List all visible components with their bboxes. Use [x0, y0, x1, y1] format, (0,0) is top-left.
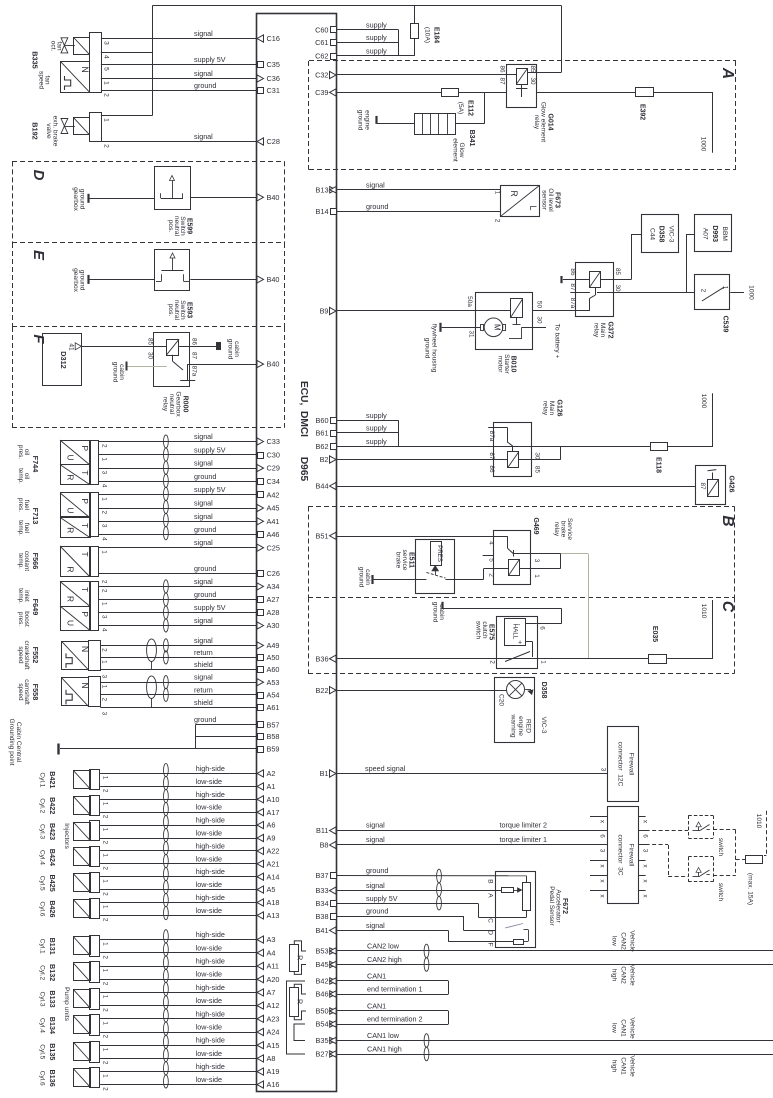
- dashed box E: [12, 243, 285, 328]
- wire B51 to G469: [337, 536, 494, 538]
- svg-text:speed: speed: [17, 646, 24, 664]
- svg-text:B423: B423: [48, 823, 57, 840]
- dashed box C: [308, 597, 735, 673]
- wire E112 to G014: [459, 92, 507, 94]
- svg-text:signal: signal: [194, 499, 213, 508]
- svg-text:(10A): (10A): [424, 27, 431, 43]
- label F713: [17, 498, 30, 536]
- svg-text:low: low: [611, 936, 618, 946]
- G372 pin labels: [569, 268, 621, 309]
- svg-text:supply: supply: [366, 46, 387, 55]
- F649 pin numbers: [101, 589, 108, 593]
- svg-text:ground: ground: [194, 525, 216, 534]
- ECU pin B9: [320, 307, 336, 316]
- svg-text:R000: R000: [182, 396, 189, 413]
- ECU pin B42: [316, 977, 337, 986]
- svg-text:2: 2: [102, 841, 109, 845]
- svg-text:signal: signal: [194, 538, 213, 547]
- svg-text:B45: B45: [316, 960, 329, 969]
- ECU pin C35: [258, 60, 280, 69]
- injector B421: [73, 770, 108, 793]
- wire B58: [195, 736, 256, 738]
- svg-text:B425: B425: [48, 875, 57, 892]
- svg-text:warning: warning: [510, 713, 517, 737]
- label wire 1000 G126: [700, 394, 707, 409]
- label D: [30, 170, 47, 181]
- svg-text:B421: B421: [48, 771, 57, 788]
- ECU pin B59: [258, 745, 280, 754]
- svg-text:low-side: low-side: [196, 803, 222, 812]
- svg-text:temp.: temp.: [17, 468, 24, 484]
- svg-text:B1: B1: [320, 769, 329, 778]
- ECU pin B14: [316, 207, 337, 216]
- svg-text:D312: D312: [59, 351, 68, 368]
- wires pump B131 high/low side: [100, 930, 256, 939]
- svg-text:Vehicle: Vehicle: [629, 964, 636, 986]
- G469 pin labels: [487, 541, 540, 578]
- svg-text:A61: A61: [267, 703, 280, 712]
- svg-text:ground: ground: [424, 338, 431, 359]
- svg-text:A07: A07: [702, 228, 709, 240]
- ECU pin A2: [257, 769, 275, 778]
- G372 30 wire to C539: [597, 292, 695, 294]
- label F744: [17, 445, 30, 484]
- wires injector B422 high/low side: [100, 790, 256, 800]
- end termination 1 loop: [337, 981, 449, 995]
- svg-text:1: 1: [102, 879, 109, 883]
- svg-text:D: D: [30, 170, 47, 181]
- svg-text:1: 1: [102, 828, 109, 832]
- svg-text:1: 1: [102, 802, 109, 806]
- clutch switch E575 HALL: [497, 617, 538, 669]
- svg-text:A11: A11: [267, 962, 279, 971]
- wires F566 to C25 C26: [99, 538, 257, 547]
- svg-text:supply: supply: [366, 424, 387, 433]
- svg-text:G426: G426: [728, 475, 735, 492]
- svg-text:Cyl.2: Cyl.2: [39, 798, 46, 813]
- svg-text:C: C: [487, 918, 494, 923]
- svg-text:6: 6: [642, 834, 649, 838]
- svg-text:A21: A21: [267, 859, 280, 868]
- svg-text:85: 85: [533, 466, 540, 474]
- 3C left pin x: [590, 817, 607, 824]
- svg-text:supply 5V: supply 5V: [194, 445, 226, 454]
- svg-text:R: R: [65, 596, 75, 602]
- svg-text:A42: A42: [267, 490, 280, 499]
- wire B53 CAN2 low: [337, 942, 773, 951]
- dashed box B: [308, 507, 735, 598]
- label B426 Cyl.6: [39, 900, 58, 917]
- 3C left pin 6: [590, 831, 607, 839]
- label B133 Cyl.3: [39, 990, 58, 1007]
- ECU pin A12: [257, 1001, 279, 1010]
- ECU pin A19: [257, 1067, 279, 1076]
- label B131 Cyl.1: [39, 938, 58, 955]
- svg-text:end termination 1: end termination 1: [367, 985, 423, 994]
- svg-text:87a: 87a: [488, 431, 495, 442]
- ECU pin A53: [257, 678, 279, 687]
- svg-text:1: 1: [102, 1048, 109, 1052]
- ECU pin A13: [257, 911, 279, 920]
- G014 pin labels: [499, 65, 537, 85]
- label F558: [17, 679, 40, 705]
- svg-text:B132: B132: [48, 964, 57, 981]
- svg-text:A16: A16: [267, 1080, 280, 1089]
- label E599 Switch neutral pos: [167, 216, 193, 237]
- svg-text:Vehicle: Vehicle: [629, 1055, 636, 1077]
- svg-text:C34: C34: [267, 477, 280, 486]
- svg-text:E184: E184: [433, 27, 440, 43]
- svg-text:1: 1: [103, 81, 110, 85]
- 3C right pin x: [638, 876, 648, 884]
- F672 wiper resistor: [502, 888, 522, 893]
- ECU pin B13: [316, 185, 337, 194]
- svg-text:low-side: low-side: [196, 906, 222, 915]
- svg-text:1000: 1000: [748, 285, 755, 300]
- svg-text:2: 2: [494, 219, 501, 223]
- svg-text:Cyl.6: Cyl.6: [39, 1071, 46, 1086]
- svg-text:low-side: low-side: [196, 880, 222, 889]
- svg-text:B37: B37: [316, 871, 329, 880]
- svg-text:F744: F744: [31, 456, 40, 474]
- ECU main box D965: [257, 14, 337, 1092]
- svg-text:1: 1: [540, 660, 547, 664]
- ECU pin B41: [316, 926, 336, 935]
- svg-text:3: 3: [101, 471, 108, 475]
- ECU pin A46: [258, 530, 280, 539]
- svg-text:low-side: low-side: [196, 970, 222, 979]
- svg-text:A46: A46: [267, 530, 280, 539]
- module BBM D993 A07: [695, 215, 732, 252]
- svg-text:M: M: [493, 324, 502, 331]
- 3C left pin x: [590, 876, 607, 884]
- svg-text:A49: A49: [267, 641, 280, 650]
- svg-text:1: 1: [533, 574, 540, 578]
- R CAN1 hooks: [294, 984, 306, 1020]
- svg-text:F558: F558: [31, 684, 40, 701]
- relay G469 service brake relay: [483, 531, 531, 585]
- svg-text:ground: ground: [366, 866, 388, 875]
- relay G014 glow element relay: [507, 65, 537, 108]
- label G014 Glow element relay: [533, 102, 554, 142]
- svg-text:87a: 87a: [569, 298, 576, 309]
- G126 inner wires: [337, 447, 514, 460]
- svg-text:CAN1: CAN1: [620, 1019, 627, 1037]
- wire B35 CAN1 low: [337, 1031, 773, 1041]
- ECU pin A3: [257, 935, 275, 944]
- ECU pin B40: [257, 193, 279, 202]
- svg-text:low-side: low-side: [196, 1075, 222, 1084]
- svg-text:Cyl.6: Cyl.6: [39, 901, 46, 916]
- svg-text:T: T: [80, 587, 90, 592]
- F672 switch and resistor: [505, 924, 529, 945]
- svg-text:F552: F552: [31, 647, 40, 664]
- svg-text:50: 50: [535, 301, 542, 309]
- svg-text:B59: B59: [267, 745, 280, 754]
- svg-text:VIC-3: VIC-3: [668, 226, 675, 243]
- ECU label ECU, DMCI D965: [298, 381, 309, 482]
- svg-text:Pump units: Pump units: [63, 987, 70, 1022]
- svg-text:1: 1: [103, 118, 110, 122]
- svg-text:high: high: [611, 969, 618, 982]
- svg-text:B34: B34: [316, 899, 329, 908]
- svg-text:P: P: [80, 611, 90, 617]
- wire B14 ground to F673: [337, 202, 501, 211]
- label B423 Cyl.3: [39, 823, 58, 840]
- svg-text:A22: A22: [267, 847, 280, 856]
- D358 labels: [498, 682, 548, 738]
- svg-text:ground: ground: [358, 567, 365, 588]
- ECU pin A22: [257, 847, 279, 856]
- ECU pin A34: [257, 582, 279, 591]
- label F649: [17, 588, 30, 627]
- shield ellipse F558: [147, 676, 157, 708]
- svg-text:N: N: [80, 66, 90, 72]
- svg-text:B50: B50: [316, 1007, 329, 1016]
- svg-text:relay: relay: [553, 522, 560, 537]
- svg-text:D358: D358: [658, 226, 665, 243]
- relay G372 Main relay: [570, 263, 613, 317]
- dashed box D: [12, 161, 285, 243]
- svg-text:1: 1: [102, 969, 109, 973]
- svg-text:B40: B40: [267, 275, 280, 284]
- svg-text:C28: C28: [267, 137, 280, 146]
- module VIC-3 D358 C44: [642, 215, 679, 253]
- svg-text:connector 12C: connector 12C: [617, 742, 624, 787]
- ECU pin B45: [316, 960, 337, 969]
- ground cabin olive wire R000: [112, 362, 167, 383]
- svg-text:signal: signal: [194, 132, 213, 141]
- svg-text:A19: A19: [267, 1067, 280, 1076]
- wire B335-2 to C31 ground: [101, 81, 257, 91]
- svg-text:2: 2: [102, 955, 109, 959]
- svg-text:high-side: high-side: [196, 983, 225, 992]
- svg-text:low-side: low-side: [196, 829, 222, 838]
- svg-text:F649: F649: [31, 599, 40, 616]
- svg-text:G126: G126: [556, 399, 563, 416]
- svg-text:U: U: [65, 507, 75, 513]
- svg-text:supply 5V: supply 5V: [194, 485, 226, 494]
- ground gearbox E symbol: [72, 268, 155, 293]
- svg-text:signal: signal: [366, 881, 385, 890]
- svg-text:E392: E392: [639, 104, 646, 120]
- module D312: [43, 334, 82, 386]
- svg-text:high-side: high-side: [196, 790, 225, 799]
- svg-text:high-side: high-side: [196, 1036, 225, 1045]
- ECU pin B34: [316, 899, 337, 908]
- label G372 Main relay: [593, 321, 614, 338]
- svg-text:1: 1: [102, 942, 109, 946]
- svg-text:2: 2: [101, 648, 108, 652]
- svg-text:B35: B35: [316, 1036, 329, 1045]
- svg-text:switch: switch: [717, 883, 724, 902]
- svg-text:temp.: temp.: [17, 520, 24, 536]
- svg-text:signal: signal: [194, 512, 213, 521]
- svg-text:A13: A13: [267, 911, 280, 920]
- svg-text:relay: relay: [542, 401, 549, 416]
- svg-text:4: 4: [101, 537, 108, 541]
- wires F649 to A34 A27 A28 A30: [99, 577, 257, 587]
- wire B27 CAN1 high: [337, 1045, 773, 1055]
- pump unit B134: [73, 1015, 108, 1039]
- svg-text:pres.: pres.: [17, 445, 24, 459]
- relay coil G426: [696, 466, 726, 505]
- svg-text:high-side: high-side: [196, 816, 225, 825]
- svg-text:B134: B134: [48, 1017, 57, 1034]
- F672 potentiometer: [495, 876, 530, 918]
- svg-text:switch: switch: [717, 838, 724, 857]
- ECU pin B35: [316, 1036, 337, 1045]
- svg-text:supply 5V: supply 5V: [194, 55, 226, 64]
- svg-text:A14: A14: [267, 872, 280, 881]
- svg-text:B27: B27: [316, 1050, 329, 1059]
- svg-text:5: 5: [487, 558, 494, 562]
- fuse E035: [649, 626, 667, 664]
- wire E599 to B40: [191, 197, 257, 199]
- twisted pair chain pump units: [164, 930, 169, 1088]
- ECU pin A54: [258, 690, 280, 699]
- svg-text:Vehicle: Vehicle: [629, 1017, 636, 1039]
- svg-text:1: 1: [101, 660, 108, 664]
- ECU pin A16: [257, 1080, 279, 1089]
- svg-text:speed: speed: [38, 71, 45, 89]
- svg-text:2: 2: [102, 982, 109, 986]
- svg-text:engine: engine: [517, 716, 524, 736]
- svg-text:return: return: [194, 648, 213, 657]
- svg-text:F: F: [487, 942, 494, 946]
- fuse E118: [651, 443, 668, 474]
- svg-text:supply: supply: [366, 437, 387, 446]
- 3C right pin x: [638, 891, 648, 899]
- dashed wire 1010 up: [755, 811, 767, 856]
- svg-text:B33: B33: [316, 886, 329, 895]
- svg-text:pos.: pos.: [167, 304, 174, 317]
- svg-text:B62: B62: [316, 442, 329, 451]
- svg-text:G014: G014: [547, 113, 554, 130]
- ECU pin A6: [257, 821, 275, 830]
- engine ground symbol: [357, 110, 415, 131]
- switch E599 neutral pos: [155, 167, 191, 210]
- svg-text:A24: A24: [267, 1028, 280, 1037]
- ECU pin B44: [316, 482, 336, 491]
- ECU pin C60: [315, 25, 336, 34]
- svg-text:E: E: [30, 250, 47, 261]
- ECU pin B1: [320, 769, 336, 778]
- svg-text:C25: C25: [267, 543, 280, 552]
- ECU pin A61: [258, 703, 280, 712]
- svg-text:2: 2: [102, 789, 109, 793]
- svg-text:B38: B38: [316, 912, 329, 921]
- label Injectors: [63, 823, 70, 849]
- svg-text:86: 86: [569, 268, 576, 276]
- label B136 Cyl.6: [39, 1070, 58, 1087]
- svg-text:A10: A10: [267, 795, 280, 804]
- svg-text:1000: 1000: [700, 137, 707, 152]
- fuse E112 (5A): [442, 89, 474, 117]
- wire B41 signal to F672 F: [337, 921, 514, 942]
- svg-text:signal: signal: [194, 69, 213, 78]
- svg-text:86: 86: [191, 338, 198, 346]
- svg-text:ground: ground: [194, 564, 216, 573]
- svg-text:CAN1: CAN1: [620, 1057, 627, 1075]
- 3C right pin 3: [638, 845, 648, 853]
- svg-text:2: 2: [103, 93, 110, 97]
- svg-text:(5A): (5A): [457, 102, 464, 114]
- wires pump B134 high/low side: [100, 1009, 256, 1018]
- ECU pin A50: [258, 653, 280, 662]
- svg-text:cabin: cabin: [233, 341, 240, 357]
- svg-text:B: B: [487, 879, 494, 884]
- svg-text:T: T: [80, 523, 90, 528]
- label A: [719, 67, 736, 79]
- ECU pin A30: [257, 621, 279, 630]
- switch 1 dashed box: [688, 816, 713, 839]
- ECU pin B40: [257, 360, 279, 369]
- svg-text:B133: B133: [48, 990, 57, 1007]
- sensor F713 fuel pres/temp: [60, 493, 99, 538]
- label B421 Cyl.1: [39, 771, 58, 788]
- pump unit B133: [73, 989, 108, 1013]
- wire B13 signal to F673: [337, 180, 501, 189]
- bracket B42 to B27: [287, 981, 306, 1054]
- svg-text:3: 3: [599, 849, 606, 853]
- svg-text:signal: signal: [194, 616, 213, 625]
- svg-text:relay: relay: [533, 115, 540, 130]
- svg-text:Cyl.1: Cyl.1: [39, 939, 46, 954]
- F558 pin numbers: [101, 685, 108, 716]
- wire B8 torque limiter 1: [337, 835, 608, 845]
- svg-text:6: 6: [599, 834, 606, 838]
- ECU pin B62: [316, 442, 337, 451]
- svg-text:B46: B46: [316, 990, 329, 999]
- svg-text:speed: speed: [17, 683, 24, 701]
- sensor F558 camshaft speed: [62, 677, 101, 707]
- svg-text:shield: shield: [194, 660, 213, 669]
- svg-text:ground: ground: [357, 110, 364, 131]
- flywheel housing ground: [424, 323, 482, 373]
- label B341 Glow element: [452, 130, 476, 162]
- svg-text:flywheel housing: flywheel housing: [431, 324, 438, 373]
- svg-text:E112: E112: [467, 100, 474, 116]
- G126 30/85 node to E118: [513, 446, 650, 459]
- wire B22 to D358: [337, 690, 507, 692]
- label F: [30, 334, 47, 344]
- wire B335-3 to C16 signal: [101, 29, 257, 39]
- svg-text:relay: relay: [593, 323, 600, 338]
- label Pump units: [63, 987, 70, 1022]
- svg-text:B22: B22: [316, 686, 329, 695]
- svg-text:A60: A60: [267, 665, 280, 674]
- ECU pin C34: [258, 477, 280, 486]
- 3C left pin 3: [590, 845, 607, 853]
- svg-text:4: 4: [101, 628, 108, 632]
- svg-text:5: 5: [103, 67, 110, 71]
- sensor F649 inlet temp boost pres: [60, 581, 99, 630]
- ECU pin A5: [257, 885, 275, 894]
- svg-text:50a: 50a: [466, 296, 473, 307]
- svg-text:A: A: [487, 893, 494, 898]
- B010 motor symbol: [481, 318, 506, 337]
- svg-text:Cyl.4: Cyl.4: [39, 850, 46, 865]
- glow element B341: [415, 113, 456, 134]
- pedal sensor F672 box: [496, 872, 536, 948]
- svg-text:85: 85: [614, 268, 621, 276]
- svg-text:C62: C62: [315, 52, 328, 61]
- ECU pin A14: [257, 872, 279, 881]
- svg-text:31: 31: [468, 330, 475, 338]
- ground cabin terminal right of R000: [179, 339, 240, 360]
- wire supply top rail: [153, 5, 562, 7]
